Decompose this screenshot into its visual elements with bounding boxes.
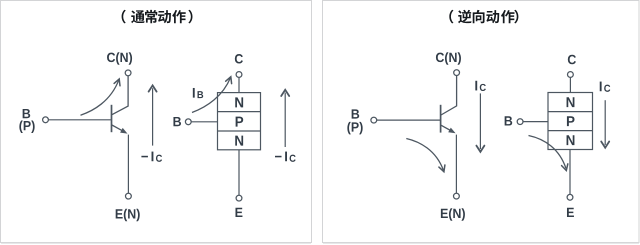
- label E: [567, 208, 574, 217]
- label B: [352, 109, 360, 118]
- node C terminal: [236, 72, 242, 78]
- label N collector layer: [235, 97, 243, 107]
- label (P): [347, 122, 362, 134]
- label C(N): [436, 52, 461, 64]
- label -IC: [141, 152, 162, 162]
- node E terminal: [125, 193, 131, 199]
- wire C to block: [238, 77, 240, 92]
- node B terminal: [517, 119, 523, 125]
- label (P): [19, 121, 34, 133]
- label IC: [475, 81, 486, 91]
- block outline: [548, 93, 593, 150]
- label N emitter layer: [567, 135, 575, 145]
- layer divider N/P: [548, 111, 593, 113]
- wire base: [48, 119, 111, 121]
- transistor Q1 (normal operation): [19, 52, 139, 221]
- wire base: [377, 119, 440, 121]
- emitter branch Q1 with arrow: [112, 125, 125, 132]
- label C(N): [107, 52, 132, 64]
- layer divider P/N: [218, 130, 261, 132]
- wire emitter: [127, 135, 129, 194]
- NPN structure block (reverse operation): [505, 55, 593, 217]
- base bar Q1: [111, 105, 113, 132]
- label C: [235, 54, 243, 63]
- arrow IC downward (right block): [600, 82, 611, 148]
- arrow IC downward (right transistor): [475, 81, 486, 152]
- wire B to block: [191, 121, 217, 123]
- label P base layer: [236, 117, 244, 127]
- node C terminal: [454, 70, 460, 76]
- right panel card (reverse operation): [323, 1, 640, 243]
- title (normal operation) CJK: [122, 10, 193, 24]
- label IC: [600, 82, 611, 92]
- arrow -IC upward (left transistor): [141, 85, 162, 161]
- wire block to E: [569, 150, 571, 195]
- wire block to E: [238, 150, 240, 195]
- label N collector layer: [567, 97, 575, 107]
- label B: [505, 116, 513, 125]
- label B: [23, 109, 31, 118]
- label E(N): [441, 208, 465, 220]
- label E(N): [116, 209, 140, 221]
- transistor Q2 (reverse operation): [347, 52, 465, 220]
- current flow arrow base-to-collector Q1: [81, 79, 121, 115]
- current flow arrow out of block (reverse): [529, 136, 568, 171]
- node C terminal: [125, 70, 131, 76]
- node E terminal: [567, 194, 573, 200]
- title (reverse operation) CJK: [449, 10, 518, 24]
- left panel card (normal operation): [1, 1, 312, 243]
- label P base layer: [567, 116, 575, 126]
- label IB: [193, 88, 203, 98]
- block outline: [218, 93, 261, 150]
- current flow arrow base-to-emitter Q2: [406, 139, 445, 172]
- node C terminal: [568, 72, 574, 78]
- label N emitter layer: [235, 136, 243, 146]
- emitter branch Q2 with arrow: [441, 125, 453, 132]
- base bar Q2: [440, 105, 442, 133]
- wire emitter: [455, 135, 457, 194]
- node B terminal: [43, 117, 49, 123]
- current flow arrow IB into block: [192, 77, 232, 113]
- NPN structure block (normal operation): [173, 54, 260, 217]
- layer divider P/N: [548, 130, 593, 132]
- label C: [568, 55, 576, 64]
- label -IC: [275, 152, 296, 162]
- node B terminal: [185, 119, 191, 125]
- collector branch Q1: [112, 76, 128, 115]
- label E: [235, 208, 242, 217]
- collector branch Q2: [441, 76, 457, 116]
- node E terminal: [454, 193, 460, 199]
- wire B to block: [523, 121, 548, 123]
- wire C to block: [569, 77, 571, 92]
- node B terminal: [371, 117, 377, 123]
- label B: [173, 117, 181, 126]
- node E terminal: [236, 195, 242, 201]
- arrow -IC upward (left block): [275, 90, 296, 162]
- layer divider N/P: [218, 111, 261, 113]
